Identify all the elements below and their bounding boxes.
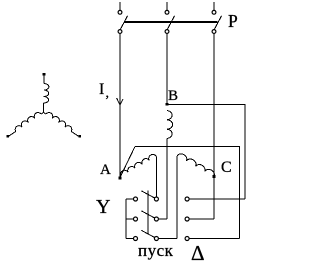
Y contact left circle row1 — [134, 197, 138, 201]
switch P top stub 3 — [213, 2, 215, 10]
switch P bottom contact circle 2 — [165, 30, 169, 34]
delta contact circle row3 — [185, 237, 189, 241]
wire Y row3 to coil C — [158, 238, 177, 240]
wire coil A end down to Y row1 — [155, 157, 157, 198]
Y contact left circle row2 — [134, 217, 138, 221]
Y contact blade row1 — [141, 191, 154, 198]
node C junction dot — [213, 175, 216, 178]
label B — [168, 88, 178, 105]
wire A rail to delta row3 — [135, 147, 239, 239]
wire coil B bottom down to Y row2 — [166, 139, 168, 220]
Y contact right circle row2 — [154, 217, 158, 221]
label delta — [191, 241, 205, 266]
label I — [99, 81, 104, 99]
motor Y-symbol top lead — [43, 75, 45, 84]
label C — [221, 159, 232, 177]
wire Y row2 to coil B — [158, 218, 167, 220]
motor Y-symbol right winding lead — [44, 113, 47, 115]
switch P linkage bar — [125, 21, 218, 23]
switch P bottom contact circle 3 — [212, 30, 216, 34]
wire coil C left end down to Y row3 — [176, 156, 178, 239]
node A junction dot — [119, 176, 122, 179]
motor Y-symbol center lead — [41, 103, 44, 114]
Y contact right circle row1 — [154, 197, 158, 201]
Y contacts mechanical linkage — [147, 191, 149, 234]
motor Y-symbol right lead — [71, 131, 78, 136]
motor Y-symbol terminal right — [79, 135, 82, 138]
motor Y-symbol left winding — [15, 113, 41, 132]
motor Y-symbol left lead — [9, 131, 16, 136]
wire line3 (phase 3) — [213, 33, 215, 219]
switch P top contact circle 3 — [212, 10, 216, 14]
delta contact circle row1 — [185, 197, 189, 201]
switch P top stub 1 — [119, 2, 121, 10]
node B junction dot — [166, 103, 169, 106]
wire delta row1 stub — [189, 198, 245, 200]
Y contact left circle row3 — [134, 237, 138, 241]
label P — [228, 11, 238, 32]
switch P blade 3 — [214, 16, 221, 30]
wire delta row2 stub to line3 — [189, 218, 214, 220]
current arrow on line1 — [117, 98, 123, 105]
winding B coil — [167, 111, 173, 139]
Y contact blade row2 — [141, 211, 154, 218]
wire line2 (phase 2) — [166, 33, 168, 104]
delta contact circle row2 — [185, 217, 189, 221]
winding C coil — [177, 154, 214, 177]
label I comma — [106, 86, 110, 102]
switch P top contact circle 1 — [118, 10, 122, 14]
Y contact blade row3 — [141, 230, 154, 237]
winding A coil — [121, 154, 157, 176]
wire delta row3 stub — [189, 238, 239, 240]
motor Y-symbol terminal left — [7, 135, 10, 138]
label Y — [96, 196, 110, 219]
wire line1 (phase 1) — [119, 33, 121, 177]
switch P blade 2 — [167, 16, 174, 30]
switch P top contact circle 2 — [165, 10, 169, 14]
wire B rail to delta row1 — [167, 104, 245, 199]
Y contact right circle row3 — [154, 237, 158, 241]
label A — [100, 162, 111, 179]
label pusk — [138, 241, 173, 261]
switch P bottom contact circle 1 — [118, 30, 122, 34]
motor Y-symbol vertical winding — [44, 84, 49, 104]
wire A diagonal to top rail — [120, 147, 135, 178]
motor Y-symbol terminal top — [43, 73, 46, 76]
Y contactor bus (star point) — [126, 199, 133, 239]
switch P blade 1 — [120, 16, 127, 30]
motor Y-symbol right winding — [46, 113, 72, 132]
switch P top stub 2 — [166, 2, 168, 10]
